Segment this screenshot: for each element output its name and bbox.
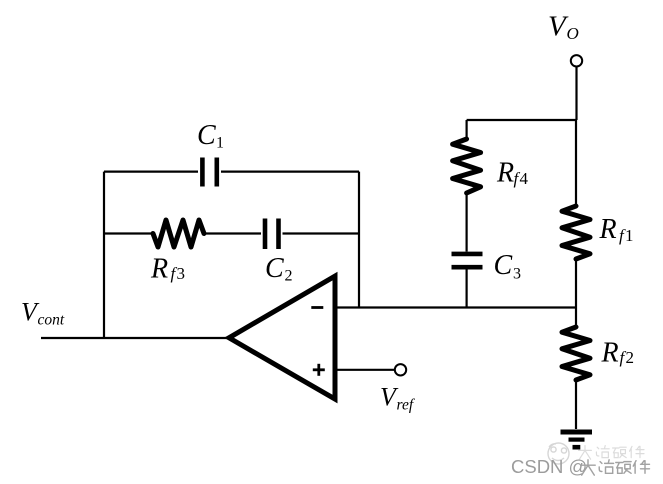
wire C2 to right rail: [283, 232, 360, 234]
capacitor C1: [202, 158, 216, 187]
svg-text:f4: f4: [514, 169, 530, 188]
resistor Rf3: [153, 220, 204, 247]
svg-text:f2: f2: [620, 348, 636, 367]
resistor Rf4: [453, 139, 481, 193]
op-amp minus pin: [311, 306, 323, 309]
wire Rf2 top lead: [575, 308, 577, 328]
svg-text:cont: cont: [38, 312, 65, 329]
svg-text:ref: ref: [397, 397, 416, 414]
svg-text:f1: f1: [619, 226, 635, 245]
svg-text:CSDN @: CSDN @: [511, 456, 587, 477]
svg-text:1: 1: [216, 135, 224, 152]
wire inverting input to node: [335, 306, 576, 308]
label Rf1: [599, 214, 635, 245]
svg-text:f3: f3: [171, 264, 187, 283]
wire Rf4 to C3: [466, 193, 468, 252]
wire Rf4 top lead: [466, 120, 468, 139]
label Vref: [380, 382, 416, 413]
label Rf3: [150, 254, 186, 285]
watermark CSDN text: [511, 456, 587, 477]
wire plus input to Vref terminal: [335, 369, 395, 371]
watermark grey CJK text: [581, 460, 650, 475]
capacitor C3: [452, 254, 483, 267]
terminal Vo: [571, 55, 582, 66]
svg-text:R: R: [599, 214, 617, 245]
wire middle branch left: [104, 232, 153, 234]
wire Vo to top node: [575, 67, 577, 121]
ground: [561, 432, 593, 447]
wire feedback right rail: [358, 172, 360, 308]
svg-text:O: O: [567, 24, 579, 43]
wire top branch left: [104, 171, 198, 173]
svg-text:C: C: [494, 250, 513, 281]
terminal Vref: [395, 364, 406, 375]
svg-text:R: R: [150, 254, 168, 285]
label Rf2: [601, 337, 636, 368]
wire left rail: [103, 172, 105, 338]
wire top branch right: [221, 171, 359, 173]
svg-text:C: C: [265, 253, 284, 284]
label Vo: [548, 11, 579, 43]
wire top right horizontal: [467, 119, 576, 121]
resistor Rf2: [562, 327, 590, 380]
label C1: [197, 120, 224, 152]
svg-text:R: R: [601, 337, 619, 368]
wire V_cont input: [41, 337, 229, 339]
resistor Rf1: [562, 206, 590, 259]
wire C3 bottom lead: [466, 270, 468, 308]
wire Rf1 bottom lead: [575, 259, 577, 308]
op-amp plus pin: [313, 364, 325, 376]
op-amp U1: [229, 276, 335, 399]
label C3: [494, 250, 522, 282]
wire right rail to Rf1: [575, 120, 577, 206]
watermark faint logo: [548, 443, 569, 464]
wire Rf2 to ground: [575, 380, 577, 429]
label V_cont: [21, 297, 65, 328]
label Rf4: [496, 158, 529, 189]
capacitor C2: [265, 219, 279, 250]
label C2: [265, 253, 293, 285]
svg-text:C: C: [197, 120, 216, 151]
svg-text:3: 3: [513, 266, 521, 283]
watermark faint text: [579, 446, 644, 460]
svg-text:R: R: [496, 158, 514, 189]
svg-text:2: 2: [285, 268, 293, 285]
wire Rf3 to C2: [204, 232, 261, 234]
